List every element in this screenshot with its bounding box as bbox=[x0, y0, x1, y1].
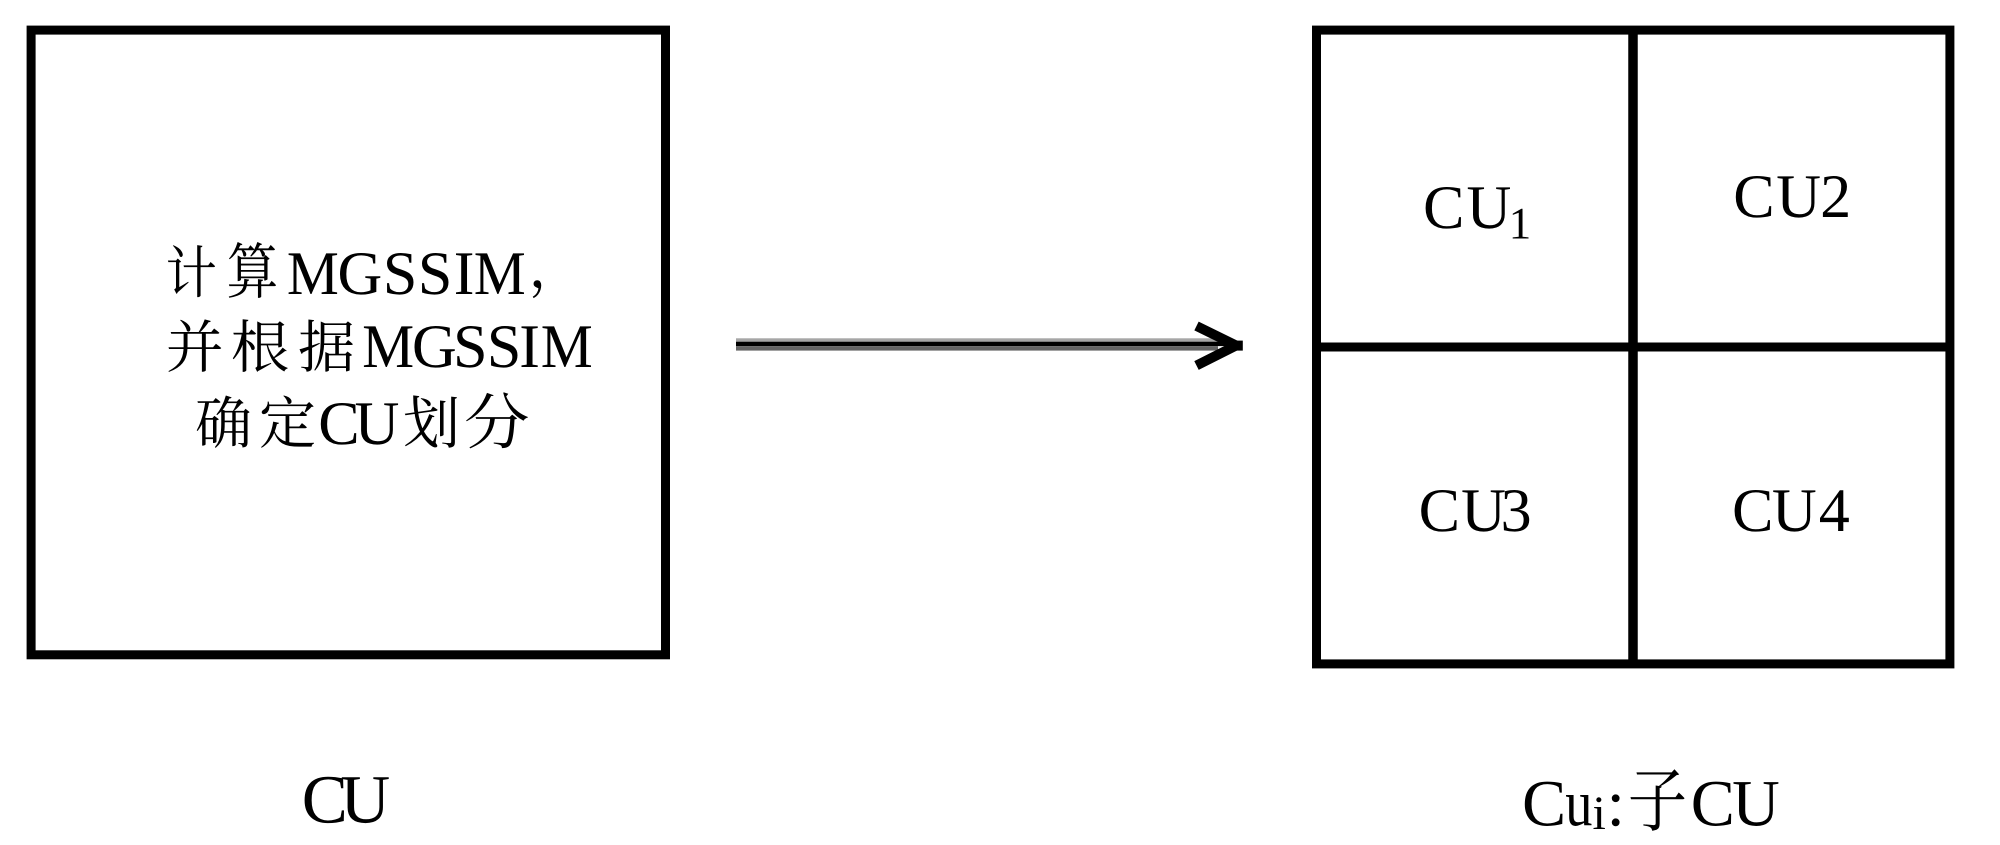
text M2.2 bbox=[543, 326, 592, 367]
label Cui - subscript i bbox=[1593, 797, 1604, 829]
label 子 bbox=[1630, 769, 1684, 830]
label Cui - C bbox=[1525, 782, 1563, 826]
text 计 bbox=[168, 245, 215, 297]
text U3 bbox=[356, 403, 398, 444]
text M1.2 bbox=[476, 253, 525, 294]
text G2 bbox=[415, 326, 455, 368]
label CU - U bbox=[342, 777, 389, 823]
text 算 bbox=[229, 242, 276, 298]
arrow shaft gray bottom bbox=[736, 346, 1218, 351]
text M2.1 bbox=[364, 326, 413, 367]
label Cui - u bbox=[1566, 795, 1592, 826]
text I2 bbox=[522, 326, 538, 367]
text 分 bbox=[466, 392, 528, 448]
grid vertical divider bbox=[1628, 30, 1638, 664]
text S1.2 bbox=[422, 253, 448, 295]
label CU - C bbox=[305, 777, 344, 823]
text S1.1 bbox=[387, 253, 413, 295]
label CU2 - U bbox=[1778, 176, 1820, 217]
text S2.1 bbox=[457, 326, 483, 368]
label CU1 - U bbox=[1468, 187, 1510, 228]
text 根 bbox=[233, 319, 288, 372]
label rightCU - C bbox=[1693, 782, 1731, 826]
text 定 bbox=[261, 395, 314, 447]
label CU3 - 3 bbox=[1504, 490, 1530, 532]
label rightCU - U bbox=[1733, 782, 1778, 826]
text C3 bbox=[321, 403, 356, 445]
text 据 bbox=[300, 320, 353, 372]
left CU box bbox=[31, 30, 665, 655]
label CU4 - C bbox=[1735, 490, 1770, 532]
text 划 bbox=[405, 395, 457, 447]
label colon bbox=[1612, 794, 1620, 826]
text M1.1 bbox=[289, 253, 338, 294]
label CU2 - 2 bbox=[1823, 176, 1848, 217]
label CU3 - C bbox=[1421, 490, 1456, 532]
label CU1 - subscript 1 bbox=[1513, 209, 1529, 239]
label CU1 - C bbox=[1426, 187, 1461, 229]
text 确 bbox=[197, 395, 250, 447]
text 并 bbox=[168, 319, 221, 372]
arrowhead tip bbox=[1227, 341, 1243, 351]
text G1 bbox=[340, 253, 380, 295]
label CU2 - C bbox=[1736, 176, 1771, 218]
label CU3 - U bbox=[1462, 490, 1504, 531]
label CU4 - U bbox=[1773, 490, 1815, 531]
text I1 bbox=[456, 253, 472, 294]
arrow shaft black core bbox=[736, 342, 1232, 346]
arrow shaft gray top bbox=[736, 338, 1218, 341]
grid horizontal divider bbox=[1317, 343, 1950, 352]
text comma bbox=[533, 280, 541, 298]
right grid outer box bbox=[1317, 30, 1950, 664]
label CU4 - 4 bbox=[1820, 490, 1849, 531]
arrowhead upper barb bbox=[1197, 326, 1237, 366]
text S2.2 bbox=[491, 326, 517, 368]
